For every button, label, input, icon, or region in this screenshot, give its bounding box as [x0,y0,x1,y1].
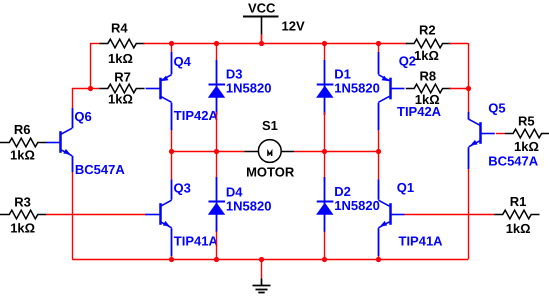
wire Q5 base to R5 [496,133,506,135]
svg-text:D2: D2 [334,184,351,199]
svg-text:Q6: Q6 [74,109,91,124]
wire top bus left segment [90,43,101,45]
wire R3 left stub [0,214,1,216]
svg-text:1kΩ: 1kΩ [108,92,133,107]
junction dot R4/R7/Q6-collector [88,86,93,91]
wire Q2 collector down to motor row [378,103,380,131]
svg-text:1kΩ: 1kΩ [108,51,133,66]
wire Q5 emitter down to ground bus [468,147,470,169]
svg-text:1kΩ: 1kΩ [10,221,35,236]
junction dot D2 on ground bus [322,257,327,262]
svg-text:BC547A: BC547A [75,162,125,177]
wire Q6 collector up [72,108,74,128]
wire Q3 emitter down to ground bus [171,228,173,256]
svg-text:R2: R2 [419,23,436,38]
junction dot D1/D2 on motor row [322,149,327,154]
diode D3 (1N5820) [216,43,218,60]
svg-text:TIP42A: TIP42A [174,108,219,123]
wire Q3 collector up to motor row [171,179,173,200]
wire Q2 emitter to top bus [378,52,380,74]
transistor Q6 (NPN) [59,131,62,153]
transistor Q1 (NPN) [389,203,392,225]
svg-text:Q3: Q3 [174,180,191,195]
svg-text:D4: D4 [226,185,243,200]
svg-text:Q2: Q2 [399,54,416,69]
wire D4 anode to ground bus [216,232,218,260]
svg-text:MOTOR: MOTOR [246,165,295,180]
wire Q4 emitter to top bus [171,52,173,74]
wire Q1 collector up to motor row [378,179,380,200]
junction dot Q4/Q3 collectors on motor row [169,149,174,154]
svg-text:R7: R7 [114,70,131,85]
wire Q5 collector up to R2/R8 junction [468,112,470,120]
wire top bus right corner segment [450,43,469,45]
svg-text:Q4: Q4 [174,54,192,69]
svg-text:R8: R8 [420,69,437,84]
power VCC lead [261,17,263,35]
resistor R7 [100,84,145,93]
wire D3 anode to motor row [216,112,218,152]
wire D2 anode to ground bus [324,232,326,260]
svg-text:1kΩ: 1kΩ [415,92,440,107]
resistor R6 [1,138,46,147]
junction dot Q4 emitter on top bus [169,41,174,46]
transistor Q3 (NPN) [159,203,162,225]
wire right drop from top bus to R8 junction [468,43,470,88]
svg-text:Q1: Q1 [397,180,414,195]
transistor Q2 (PNP) [389,78,392,100]
svg-text:VCC: VCC [248,0,276,15]
svg-text:1N5820: 1N5820 [226,81,272,96]
resistor R3 [1,210,46,219]
resistor R5 [505,129,549,138]
wire R7 junction to Q6 collector column [72,88,90,90]
svg-text:R4: R4 [111,21,128,36]
svg-text:Q5: Q5 [488,100,505,115]
svg-text:BC547A: BC547A [488,154,538,169]
wire R3 to Q3 base [46,214,146,216]
svg-text:D3: D3 [226,66,243,81]
svg-text:R1: R1 [510,194,527,209]
svg-text:1N5820: 1N5820 [334,81,380,96]
svg-text:1kΩ: 1kΩ [10,147,35,162]
wire D1 anode to motor row [324,112,326,152]
junction dot D3 on top bus [214,41,219,46]
resistor R4 [100,39,145,48]
resistor R1 [494,210,539,219]
junction dot D1 on top bus [322,41,327,46]
svg-text:1kΩ: 1kΩ [506,221,531,236]
junction dot Q1 emitter on ground bus [376,257,381,262]
junction dot VCC on top bus [259,41,264,46]
wire ground bus [72,259,468,261]
wire R6 left stub [0,142,1,144]
svg-text:S1: S1 [262,118,278,133]
svg-text:TIP41A: TIP41A [174,234,219,249]
svg-text:TIP41A: TIP41A [399,233,444,248]
svg-text:R6: R6 [14,122,31,137]
wire Q1 emitter down to ground bus [378,228,380,256]
wire Q1 base to R1 [405,214,496,216]
wire top bus middle segment [144,43,407,45]
svg-text:R5: R5 [518,114,535,129]
svg-text:R3: R3 [14,195,31,210]
diode D2 (1N5820) [324,152,326,181]
wire Q6 emitter down to ground bus [72,156,74,172]
junction dot ground stem on ground bus [259,257,264,262]
ground symbol [253,285,271,287]
wire ground stem [261,259,263,278]
svg-text:1N5820: 1N5820 [226,199,272,214]
wire motor row right segment [294,151,378,153]
diode D4 (1N5820) [216,152,218,181]
junction dot Q2/Q1 collectors on motor row [376,149,381,154]
motor S1 symbol [245,151,259,153]
junction dot Q3 emitter on ground bus [169,257,174,262]
junction dot D4 on ground bus [214,257,219,262]
diode D1 (1N5820) [324,43,326,60]
junction dot D3/D4 on motor row [214,149,219,154]
transistor Q4 (PNP) [159,78,162,100]
wire left drop from top bus to R7 junction [90,43,92,88]
svg-text:1N5820: 1N5820 [334,198,380,213]
junction dot Q2 emitter on top bus [376,41,381,46]
svg-text:D1: D1 [334,66,351,81]
wire Q4 collector down to motor row [171,103,173,131]
wire R7 junction to R7 [90,88,100,90]
transistor Q5 (NPN) [479,122,482,144]
wire R8 to right drop junction [450,88,469,90]
svg-text:1kΩ: 1kΩ [414,48,439,63]
resistor R8 [406,84,451,93]
wire motor row left segment [172,151,245,153]
resistor R2 [406,39,451,48]
svg-text:12V: 12V [282,19,305,34]
svg-text:1kΩ: 1kΩ [514,139,539,154]
power VCC bar [243,16,279,18]
junction dot R2/R8/Q5-collector [466,86,471,91]
